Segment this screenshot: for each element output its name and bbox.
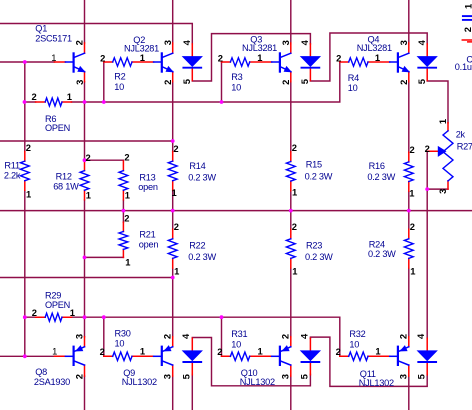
svg-text:1: 1 [409,188,414,199]
svg-text:1: 1 [257,52,262,63]
svg-text:2: 2 [280,334,291,339]
svg-text:1: 1 [86,190,91,201]
svg-text:2: 2 [162,80,173,85]
svg-text:10: 10 [114,82,124,92]
svg-text:0.2 3W: 0.2 3W [188,252,216,262]
svg-text:10: 10 [349,339,359,349]
svg-text:3: 3 [280,40,291,45]
svg-text:R23: R23 [306,240,322,250]
svg-text:3: 3 [398,374,409,379]
svg-text:1: 1 [375,52,380,63]
svg-text:5: 5 [299,79,310,84]
svg-text:R13: R13 [139,173,155,183]
svg-text:10: 10 [231,339,241,349]
svg-text:1: 1 [410,266,415,277]
svg-text:1: 1 [52,346,57,357]
svg-text:0.2 3W: 0.2 3W [305,252,333,262]
svg-text:1: 1 [70,307,75,318]
svg-text:1: 1 [51,52,56,63]
svg-text:2: 2 [124,213,129,224]
svg-text:2: 2 [336,53,341,64]
svg-text:2: 2 [32,91,37,102]
svg-text:open: open [138,182,158,192]
svg-text:R15: R15 [306,160,322,170]
svg-text:2: 2 [425,143,430,154]
svg-text:4: 4 [180,333,191,339]
svg-text:NJL1302: NJL1302 [359,378,394,388]
svg-text:2: 2 [173,143,178,154]
svg-text:0.2 3W: 0.2 3W [368,249,396,259]
svg-text:3: 3 [162,374,173,379]
svg-text:1: 1 [375,346,380,357]
svg-text:1: 1 [26,189,31,200]
svg-text:2: 2 [86,152,91,163]
svg-text:3: 3 [162,40,173,45]
svg-text:3: 3 [437,189,448,194]
svg-text:5: 5 [415,374,426,379]
svg-text:2k: 2k [456,130,466,140]
svg-text:4: 4 [298,333,309,339]
svg-text:2: 2 [462,27,472,32]
svg-text:1: 1 [437,119,448,124]
svg-text:2: 2 [336,346,341,357]
svg-text:68 1W: 68 1W [53,182,79,192]
svg-text:2: 2 [74,40,85,45]
svg-text:2: 2 [100,346,105,357]
svg-text:R12: R12 [56,172,72,182]
svg-text:2: 2 [26,142,31,153]
svg-text:R30: R30 [115,328,131,338]
svg-text:NJL3281: NJL3281 [124,44,159,54]
svg-text:1: 1 [67,91,72,102]
svg-text:2SC5171: 2SC5171 [35,34,72,44]
svg-text:1: 1 [292,187,297,198]
svg-text:Q1: Q1 [35,23,47,33]
svg-text:2SA1930: 2SA1930 [34,377,70,387]
svg-text:R22: R22 [189,240,205,250]
svg-text:2: 2 [100,53,105,64]
svg-text:3: 3 [74,80,85,85]
svg-text:1: 1 [172,187,177,198]
svg-text:3: 3 [280,374,291,379]
svg-text:0.1uF: 0.1uF [455,62,472,72]
svg-text:1: 1 [258,346,263,357]
svg-text:10: 10 [115,339,125,349]
svg-text:4: 4 [415,333,426,339]
svg-text:R3: R3 [231,72,242,82]
svg-text:5: 5 [181,79,192,84]
svg-text:2.2k: 2.2k [4,171,21,181]
svg-text:open: open [139,239,159,249]
svg-text:2: 2 [410,144,415,155]
svg-text:2: 2 [280,80,291,85]
svg-text:OPEN: OPEN [45,123,70,133]
svg-text:0.2 3W: 0.2 3W [367,172,395,182]
svg-text:2: 2 [162,334,173,339]
svg-text:R11: R11 [4,160,20,170]
svg-text:NJL3281: NJL3281 [357,43,392,53]
svg-text:NJL1302: NJL1302 [122,377,157,387]
svg-text:2: 2 [218,53,223,64]
svg-text:Q8: Q8 [35,367,47,377]
svg-text:2: 2 [398,80,409,85]
svg-text:2: 2 [292,142,297,153]
svg-text:1: 1 [140,52,145,63]
svg-text:1: 1 [125,190,130,201]
svg-text:10: 10 [348,83,358,93]
svg-text:R32: R32 [349,329,365,339]
svg-text:1: 1 [463,4,472,9]
svg-text:R31: R31 [231,329,247,339]
svg-text:2: 2 [217,346,222,357]
svg-text:2: 2 [124,151,129,162]
svg-text:3: 3 [73,334,84,339]
svg-text:1: 1 [174,266,179,277]
svg-text:R21: R21 [139,230,155,240]
svg-text:4: 4 [181,39,192,45]
svg-text:1: 1 [125,257,130,268]
svg-text:R14: R14 [189,161,205,171]
svg-text:NJL1302: NJL1302 [240,377,275,387]
svg-text:4: 4 [416,39,427,45]
svg-text:5: 5 [416,79,427,84]
svg-text:0.2 3W: 0.2 3W [305,171,333,181]
svg-text:2: 2 [292,221,297,232]
svg-text:0.2 3W: 0.2 3W [188,172,216,182]
svg-text:R16: R16 [369,161,385,171]
svg-text:2: 2 [73,374,84,379]
svg-text:2: 2 [410,221,415,232]
svg-text:5: 5 [181,374,192,379]
svg-text:4: 4 [299,39,310,45]
svg-text:2: 2 [32,307,37,318]
svg-text:R4: R4 [348,73,359,83]
svg-text:1: 1 [140,346,145,357]
svg-text:R2: R2 [114,72,125,82]
svg-text:3: 3 [398,40,409,45]
svg-text:2: 2 [174,221,179,232]
svg-text:5: 5 [299,374,310,379]
svg-text:NJL3281: NJL3281 [242,43,277,53]
svg-text:OPEN: OPEN [45,300,70,310]
svg-text:1: 1 [292,266,297,277]
svg-text:R27: R27 [457,141,472,151]
svg-text:2: 2 [398,334,409,339]
svg-text:10: 10 [231,83,241,93]
